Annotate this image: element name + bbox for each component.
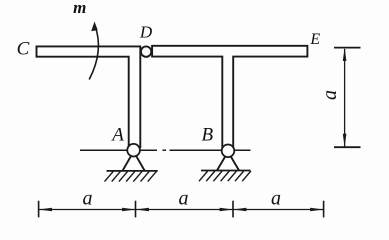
ground hatching B (199, 171, 251, 181)
beam D-E with column (right T member) (152, 46, 307, 147)
centerline A-B (dash-dot axis) (80, 149, 251, 151)
wire: support triangle B (217, 152, 239, 171)
pin support A circle (127, 144, 140, 157)
moment arrowhead (91, 22, 98, 32)
svg-text:a: a (179, 188, 189, 210)
beam C-D with column (left T member) (37, 46, 141, 147)
svg-text:m: m (73, 0, 86, 17)
wire: support triangle A (123, 152, 145, 171)
dimension line right vertical (344, 49, 346, 147)
svg-text:C: C (17, 39, 30, 60)
ground hatching A (105, 171, 157, 181)
svg-text:D: D (139, 23, 153, 42)
pin support B circle (222, 145, 235, 158)
dimension tick below A (135, 201, 137, 218)
ground line B (201, 170, 251, 172)
svg-text:a: a (319, 90, 341, 100)
dimension tick below E (323, 201, 325, 218)
dimension baseline bottom (39, 209, 324, 211)
moment arc m (89, 26, 98, 80)
svg-text:A: A (110, 124, 124, 145)
hinge D (141, 46, 151, 56)
dimension tick below C (38, 201, 40, 218)
svg-text:a: a (271, 188, 281, 210)
dimension top tick right (334, 47, 361, 49)
svg-text:B: B (201, 124, 213, 145)
dimension tick below B (232, 201, 234, 218)
dimension arrows right (343, 48, 347, 148)
dimension arrows bottom (39, 208, 324, 212)
dimension bottom tick right (334, 146, 361, 148)
svg-text:a: a (83, 188, 93, 210)
ground line A (107, 170, 158, 172)
svg-text:E: E (309, 31, 320, 48)
